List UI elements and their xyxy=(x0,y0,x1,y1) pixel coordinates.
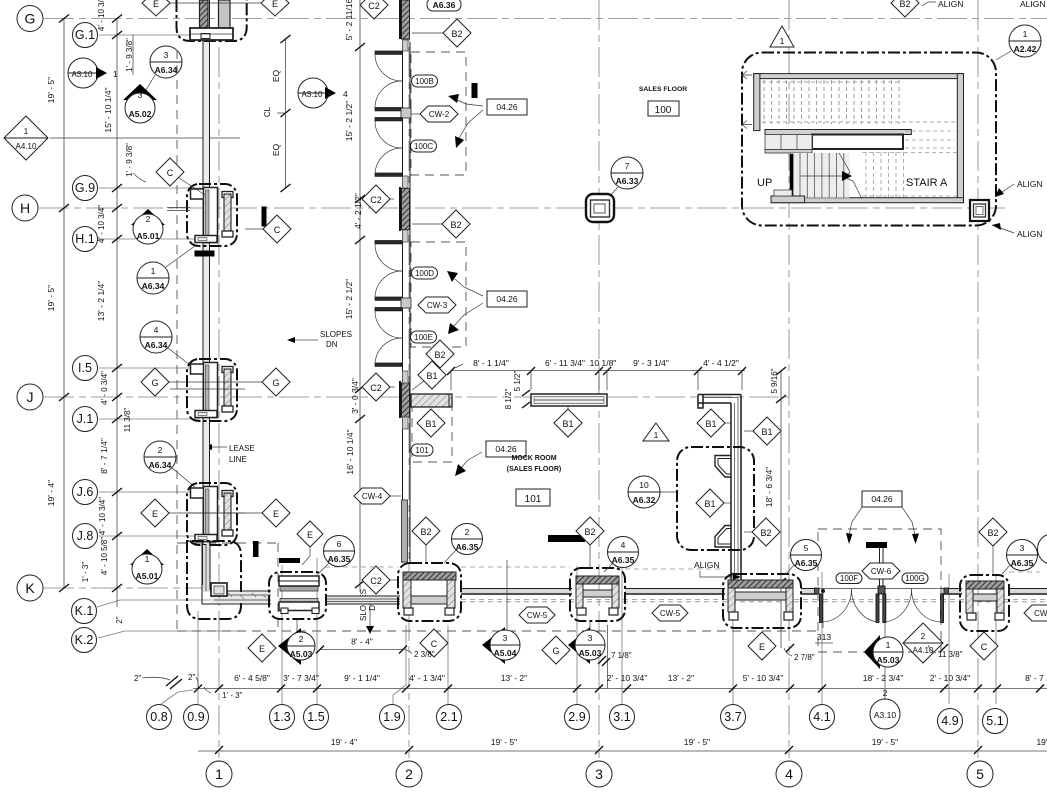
svg-text:04.26: 04.26 xyxy=(496,294,518,304)
svg-text:G: G xyxy=(552,646,559,656)
grid line G.1 xyxy=(99,34,205,36)
svg-text:1: 1 xyxy=(113,69,118,79)
svg-text:CW-6: CW-6 xyxy=(871,567,892,576)
top B2 align xyxy=(891,0,919,17)
tag B2 at 426 xyxy=(412,517,440,563)
subgrid 1.9 vertical elbow xyxy=(393,625,406,704)
svg-text:100: 100 xyxy=(655,105,672,116)
detail circle 5/A6.35 xyxy=(786,540,822,575)
door 100B leaf bottom xyxy=(375,108,402,111)
doors 100F 100G xyxy=(815,529,949,652)
left wall assembly at G xyxy=(177,0,247,41)
subgrid 1.5 vertical xyxy=(316,558,318,704)
svg-text:CL: CL xyxy=(263,106,272,117)
door 100B arc top xyxy=(375,54,402,81)
door 100E arc bottom xyxy=(375,338,402,364)
svg-text:3: 3 xyxy=(1020,543,1025,553)
svg-text:A3.10: A3.10 xyxy=(874,710,896,720)
svg-text:1: 1 xyxy=(215,766,223,782)
tag hexagon CW right clipped xyxy=(1024,605,1047,621)
grand total dim line xyxy=(198,750,1047,752)
svg-text:7 1/8": 7 1/8" xyxy=(611,651,632,660)
tag hexagon CW-4 xyxy=(354,488,401,504)
corner dashed box xyxy=(177,542,278,544)
J wall stub hatched xyxy=(411,394,452,407)
stair top wall xyxy=(754,74,964,79)
tag B2 right edge clipped xyxy=(1038,534,1047,565)
svg-text:H: H xyxy=(20,200,30,216)
svg-text:1' - 3": 1' - 3" xyxy=(81,562,90,583)
svg-text:04.26: 04.26 xyxy=(495,444,517,454)
tag C below grid2 assembly xyxy=(420,629,448,657)
svg-text:1' - 3": 1' - 3" xyxy=(222,691,243,700)
svg-text:A6.34: A6.34 xyxy=(149,460,172,470)
detail circle 1/A2.42 xyxy=(996,25,1041,60)
svg-text:3: 3 xyxy=(138,90,143,100)
grid line H horizontal xyxy=(39,207,1005,209)
LEFTWALL xyxy=(141,0,300,619)
tag B2 at 353 xyxy=(426,340,454,368)
stair open well xyxy=(812,135,903,150)
svg-text:15' - 10 1/4": 15' - 10 1/4" xyxy=(103,87,113,132)
svg-text:1: 1 xyxy=(151,266,156,276)
storefront segment 941-962 xyxy=(941,589,962,595)
tag B2 top xyxy=(412,19,471,47)
svg-text:4' - 4 1/2": 4' - 4 1/2" xyxy=(703,358,739,368)
detail circle 7/A6.33 xyxy=(610,157,643,196)
tag oval 101 xyxy=(411,444,433,456)
svg-text:3: 3 xyxy=(503,633,508,643)
tag C at 984 xyxy=(970,632,998,660)
svg-text:5: 5 xyxy=(976,766,984,782)
dashed vestibule box 2 xyxy=(411,242,466,347)
tag hexagon CW-5 b xyxy=(652,605,688,621)
svg-text:A5.02: A5.02 xyxy=(129,109,152,119)
subgrid 2.1 vertical xyxy=(447,625,449,704)
tag B2 mid xyxy=(412,210,470,238)
stair bottom wall xyxy=(771,198,964,203)
svg-text:A6.35: A6.35 xyxy=(612,555,635,565)
subgrid 4.9 vertical xyxy=(948,574,950,704)
svg-text:100G: 100G xyxy=(905,574,925,583)
svg-text:A5.04: A5.04 xyxy=(494,648,517,658)
tag C2 at J xyxy=(362,373,395,401)
svg-text:CW-3: CW-3 xyxy=(427,301,448,310)
svg-text:8' - 1 1/4": 8' - 1 1/4" xyxy=(473,358,509,368)
tag B2 right of L wall low xyxy=(744,518,780,546)
svg-text:A6.34: A6.34 xyxy=(155,65,178,75)
svg-text:1: 1 xyxy=(1023,29,1028,39)
storefront segment 323-400 xyxy=(326,596,400,604)
door 100B leaf top xyxy=(375,51,402,54)
tag G at 556 xyxy=(542,636,570,664)
detail circle 6/A6.35 xyxy=(318,536,355,575)
svg-text:SALES FLOOR: SALES FLOOR xyxy=(639,86,687,93)
svg-text:E: E xyxy=(273,509,279,519)
grid line I.5 xyxy=(99,367,200,369)
wall A mockroom xyxy=(531,394,607,406)
svg-text:B2: B2 xyxy=(434,350,445,360)
tag oval 100F xyxy=(836,573,862,584)
svg-text:19' - 5": 19' - 5" xyxy=(491,737,517,747)
subgrid 0.8 leader xyxy=(161,690,193,704)
grid bubble 1 xyxy=(206,761,232,787)
small align arrows left xyxy=(742,71,752,79)
svg-text:J.6: J.6 xyxy=(77,485,94,499)
svg-text:100D: 100D xyxy=(415,269,434,278)
black bar at 548-585 xyxy=(548,535,585,542)
svg-text:4' - 0 3/4": 4' - 0 3/4" xyxy=(100,371,109,405)
svg-text:A5.03: A5.03 xyxy=(877,655,900,665)
grid bubble G.1 xyxy=(73,23,98,48)
svg-text:9' - 3 1/4": 9' - 3 1/4" xyxy=(633,358,669,368)
svg-text:1: 1 xyxy=(654,430,659,440)
svg-text:13' - 2": 13' - 2" xyxy=(668,673,694,683)
tag E below 3.7 assembly xyxy=(748,632,776,660)
svg-text:11 3/8": 11 3/8" xyxy=(123,408,132,433)
svg-text:SLOPES: SLOPES xyxy=(320,330,352,339)
right jamb cap xyxy=(944,588,949,594)
svg-text:DN: DN xyxy=(326,340,338,349)
door leaf center right xyxy=(883,594,886,623)
svg-text:H.1: H.1 xyxy=(75,232,95,246)
subgrid 0.9 vertical xyxy=(197,611,199,704)
lower mullion pad xyxy=(402,500,408,562)
vertical dim line x360 xyxy=(359,0,361,592)
svg-text:2: 2 xyxy=(883,688,888,698)
svg-text:ALIGN: ALIGN xyxy=(1017,229,1043,239)
dashed box below J wall xyxy=(412,397,452,462)
svg-text:A6.35: A6.35 xyxy=(795,558,818,568)
grid bubble 5 xyxy=(967,761,993,787)
LEFTBUBBLES xyxy=(4,0,818,653)
grid bubble 2.9 xyxy=(565,705,590,730)
svg-text:16' - 10 1/4": 16' - 10 1/4" xyxy=(345,429,355,474)
grid line J.8 xyxy=(99,535,195,537)
svg-text:10 1/8": 10 1/8" xyxy=(590,358,617,368)
mullion assembly at J (C2) xyxy=(402,383,410,417)
svg-text:0.8: 0.8 xyxy=(150,710,167,724)
svg-text:4' - 10 3/4": 4' - 10 3/4" xyxy=(97,205,106,243)
JWALLS xyxy=(411,358,786,648)
svg-text:101: 101 xyxy=(525,494,542,505)
svg-text:15' - 2 1/2": 15' - 2 1/2" xyxy=(344,279,354,320)
svg-text:19' - 5": 19' - 5" xyxy=(684,737,710,747)
svg-text:100B: 100B xyxy=(415,77,434,86)
svg-text:2: 2 xyxy=(405,766,413,782)
svg-text:B1: B1 xyxy=(705,419,716,429)
svg-text:313: 313 xyxy=(817,632,831,642)
svg-text:15' - 2 1/2": 15' - 2 1/2" xyxy=(344,101,354,142)
tag oval 100G xyxy=(902,573,928,584)
svg-text:J: J xyxy=(27,389,34,405)
svg-text:B2: B2 xyxy=(420,527,431,537)
tag B1 left of L wall xyxy=(697,409,731,437)
svg-text:C2: C2 xyxy=(370,576,382,586)
svg-text:K.2: K.2 xyxy=(75,633,94,647)
lower flight treads xyxy=(793,153,849,198)
lease line dashed vertical xyxy=(176,50,178,631)
diamond E pair at J.6 xyxy=(141,499,169,527)
svg-text:I.5: I.5 xyxy=(78,361,92,375)
svg-text:LEASE: LEASE xyxy=(229,444,255,453)
detail circle 1/A6.34 xyxy=(137,246,195,294)
svg-text:19' - 4": 19' - 4" xyxy=(331,737,357,747)
grid line J horizontal xyxy=(44,396,789,398)
grid bubble 2 xyxy=(396,761,422,787)
svg-text:B2: B2 xyxy=(760,528,771,538)
svg-text:2: 2 xyxy=(299,634,304,644)
svg-text:8' - 7 1/4": 8' - 7 1/4" xyxy=(99,438,109,474)
svg-text:CW-2: CW-2 xyxy=(429,110,450,119)
small dim 2 7/8 xyxy=(784,644,815,662)
svg-text:STAIR A: STAIR A xyxy=(906,177,948,189)
detail circle 10/A6.32 xyxy=(628,476,677,508)
left storefront wall glass lines xyxy=(203,0,210,585)
tag E near corner xyxy=(248,634,276,662)
svg-text:2 7/8": 2 7/8" xyxy=(794,653,815,662)
subgrid 2.9 vertical xyxy=(576,566,578,704)
svg-text:100E: 100E xyxy=(414,333,433,342)
door 100D leaf bottom xyxy=(375,297,402,300)
section marker 3/A5.02 xyxy=(123,84,157,123)
svg-text:19' - 5": 19' - 5" xyxy=(872,737,898,747)
stair stringer black bar xyxy=(790,154,794,197)
tag B1 below J wall xyxy=(417,409,445,437)
svg-text:2: 2 xyxy=(146,214,151,224)
grid line 5 vertical xyxy=(977,0,979,758)
mock room fixture callout box xyxy=(677,447,754,550)
storefront segment 801-818 xyxy=(801,589,818,595)
tag oval 100D xyxy=(412,267,438,279)
svg-text:4' - 1 3/4": 4' - 1 3/4" xyxy=(409,673,445,683)
svg-text:J.1: J.1 xyxy=(77,412,94,426)
tag E at 310 xyxy=(297,521,323,565)
svg-text:B1: B1 xyxy=(704,499,715,509)
svg-text:7: 7 xyxy=(625,161,630,171)
svg-text:K: K xyxy=(25,580,35,596)
tag C2 mid xyxy=(362,185,394,213)
grid bubble 1.9 xyxy=(380,705,405,730)
STAIR xyxy=(586,0,1046,239)
grid bubble J.8 xyxy=(73,524,98,549)
svg-text:ALIGN: ALIGN xyxy=(938,0,964,9)
door 100D arc top xyxy=(375,244,402,271)
tag hexagon CW-2 xyxy=(411,106,458,122)
svg-text:4: 4 xyxy=(785,766,793,782)
svg-text:19': 19' xyxy=(1036,737,1047,747)
delta 1 triangle mid xyxy=(643,423,669,441)
svg-text:A6.34: A6.34 xyxy=(142,281,165,291)
door 100E leaf top xyxy=(375,308,402,311)
door leaf right xyxy=(941,594,944,623)
grid bubble J.6 xyxy=(73,480,98,505)
section marker A3.10-1 xyxy=(68,58,118,88)
align note right upper xyxy=(995,179,1043,197)
mid mullion pad CW-2 xyxy=(401,108,411,118)
svg-text:4' - 10 5/8": 4' - 10 5/8" xyxy=(100,537,109,575)
svg-text:6: 6 xyxy=(337,539,342,549)
svg-text:C: C xyxy=(167,168,174,178)
slopes dn note xyxy=(287,330,352,349)
door 100E leaf bottom xyxy=(375,363,402,366)
svg-text:13' - 2": 13' - 2" xyxy=(501,673,527,683)
door 100C leaf bottom xyxy=(375,173,402,176)
K assembly grid2 xyxy=(398,563,461,621)
door 100E arc top xyxy=(375,311,402,338)
svg-text:100F: 100F xyxy=(840,574,858,583)
door 100C arc bottom xyxy=(375,148,402,174)
svg-text:1: 1 xyxy=(780,36,785,46)
grid bubble 0.8 xyxy=(147,705,172,730)
KWALL xyxy=(248,491,1047,700)
grid bubble 3.7 xyxy=(721,705,746,730)
grid bubble H xyxy=(12,195,38,221)
svg-text:C: C xyxy=(274,225,281,235)
svg-text:1: 1 xyxy=(24,127,29,136)
main lower dim line xyxy=(193,688,1047,690)
dashed vestibule box 1 xyxy=(411,52,466,175)
tag oval 100C xyxy=(411,140,437,152)
svg-text:B2: B2 xyxy=(987,528,998,538)
tag oval A6.36 xyxy=(427,0,461,11)
dim 8-4 xyxy=(316,637,435,660)
svg-text:A6.32: A6.32 xyxy=(633,495,656,505)
svg-text:3' - 7 3/4": 3' - 7 3/4" xyxy=(283,673,319,683)
svg-text:A6.35: A6.35 xyxy=(328,554,351,564)
grid line 4 vertical xyxy=(788,0,790,758)
svg-text:CW-5: CW-5 xyxy=(660,609,681,618)
svg-text:2: 2 xyxy=(158,445,163,455)
svg-text:B2: B2 xyxy=(450,220,461,230)
svg-text:E: E xyxy=(759,642,765,652)
svg-text:CW-5: CW-5 xyxy=(527,611,548,620)
subgrid 3.7 vertical xyxy=(732,572,734,704)
svg-text:B1: B1 xyxy=(562,419,573,429)
svg-text:A5.01: A5.01 xyxy=(136,571,159,581)
svg-text:A5.03: A5.03 xyxy=(290,649,313,659)
svg-text:4: 4 xyxy=(343,89,348,99)
grid line J.6 xyxy=(99,491,195,493)
grid bubble 4.9 xyxy=(938,709,963,734)
svg-text:8 1/2": 8 1/2" xyxy=(504,389,513,410)
section marker 2/A5.01 xyxy=(131,209,165,244)
grid line 3 vertical xyxy=(598,0,600,758)
svg-text:A4.10: A4.10 xyxy=(16,142,37,151)
grid bubble K.1 xyxy=(72,599,97,624)
left jamb cap xyxy=(815,588,820,594)
svg-text:5' - 10 3/4": 5' - 10 3/4" xyxy=(743,673,784,683)
VERTCW xyxy=(344,0,527,634)
grid line K.1 elbow xyxy=(97,600,211,607)
svg-text:3: 3 xyxy=(164,50,169,60)
stair right wall xyxy=(957,74,963,203)
black bar corner horizontal xyxy=(279,558,300,563)
grid bubble I.5 xyxy=(73,356,98,381)
grid bubble G xyxy=(17,6,43,32)
black bar below H assembly xyxy=(195,251,215,257)
bottom left stub xyxy=(771,196,805,203)
fixture chevron top xyxy=(715,456,731,478)
svg-text:E: E xyxy=(153,0,159,9)
K assembly 3.7-4.1 xyxy=(723,574,801,628)
svg-text:4.9: 4.9 xyxy=(941,714,958,728)
svg-text:5 1/2": 5 1/2" xyxy=(513,371,522,392)
svg-text:1.3: 1.3 xyxy=(273,710,290,724)
door leaf center left xyxy=(876,594,879,623)
grid bubble 2.1 xyxy=(437,705,462,730)
section marker A3.10-4 xyxy=(298,78,348,108)
svg-text:3: 3 xyxy=(595,766,603,782)
svg-text:2.1: 2.1 xyxy=(440,710,457,724)
grid bubble 4.1 xyxy=(810,705,835,730)
svg-text:C: C xyxy=(981,642,988,652)
delta 1 triangle above stair xyxy=(770,26,794,47)
landing left xyxy=(765,135,812,150)
corner assembly at K xyxy=(187,541,271,619)
door 100B arc bottom xyxy=(375,81,402,108)
svg-text:C: C xyxy=(431,639,438,649)
elevation marker 2/A4.10 xyxy=(903,623,943,663)
svg-text:6' - 11 3/4": 6' - 11 3/4" xyxy=(545,358,585,368)
mock room L wall vertical arm xyxy=(740,395,742,583)
grid line 2 vertical xyxy=(408,0,410,758)
mid mullion pad CW-3 xyxy=(401,298,411,308)
svg-text:3' - 0 3/4": 3' - 0 3/4" xyxy=(350,378,360,414)
black bar corner vertical xyxy=(253,541,259,557)
elevation marker 1/A4.10 xyxy=(4,116,240,160)
svg-text:E: E xyxy=(272,0,278,9)
tag C2 low xyxy=(362,566,399,594)
black bar above doors xyxy=(866,542,887,548)
svg-text:4' - 10 3/4": 4' - 10 3/4" xyxy=(98,497,107,535)
svg-text:2.9: 2.9 xyxy=(568,710,585,724)
svg-text:A6.34: A6.34 xyxy=(145,340,168,350)
right dim 18-6 3/4 xyxy=(780,371,782,649)
subgrid 4.1 vertical xyxy=(821,572,823,704)
svg-text:3.7: 3.7 xyxy=(724,710,741,724)
svg-text:2: 2 xyxy=(465,527,470,537)
flight break line xyxy=(839,153,862,199)
align note mock room xyxy=(694,560,741,580)
svg-text:E: E xyxy=(307,530,313,540)
center pad xyxy=(878,586,885,594)
svg-text:EQ: EQ xyxy=(271,69,281,82)
grid bubble 4 xyxy=(776,761,802,787)
grid bubble 5.1 xyxy=(983,709,1008,734)
tag B1 in fixture box xyxy=(696,489,731,517)
svg-text:A3.10: A3.10 xyxy=(302,90,323,99)
svg-text:5 9/16": 5 9/16" xyxy=(770,368,779,393)
stair enclosure dashdot border xyxy=(742,53,996,226)
svg-text:6' - 4 5/8": 6' - 4 5/8" xyxy=(234,673,270,683)
grid line J.1 xyxy=(99,418,200,420)
interior dashed lines below storefront xyxy=(461,599,818,601)
svg-text:B2: B2 xyxy=(584,527,595,537)
grid bubble 3 xyxy=(586,761,612,787)
tag hexagon CW-3 xyxy=(418,297,456,313)
svg-text:10: 10 xyxy=(639,480,649,490)
mock room L wall horizontal arm xyxy=(698,394,741,396)
grid line H.1 xyxy=(99,238,205,240)
grid bubble 1.5 xyxy=(304,705,329,730)
detail circle 3/A6.34 xyxy=(143,46,182,95)
svg-text:4: 4 xyxy=(154,325,159,335)
dashed vestibule box doors xyxy=(818,529,941,652)
diamond C upper xyxy=(156,158,205,195)
top mullion assembly xyxy=(402,0,410,39)
subgrid 3.1 vertical xyxy=(621,566,623,704)
